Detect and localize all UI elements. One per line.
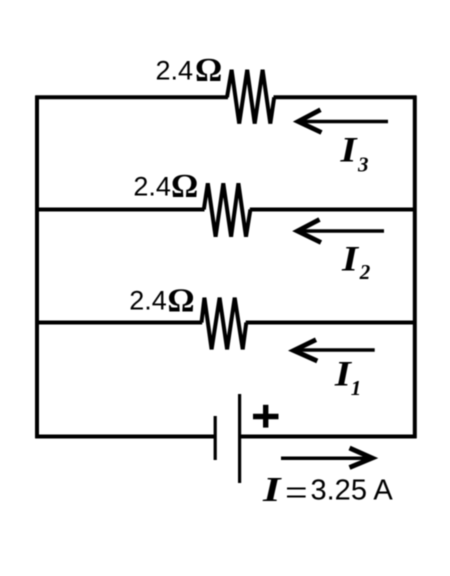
svg-text:Ω: Ω bbox=[167, 283, 194, 320]
wire middle branch right bbox=[250, 208, 417, 212]
svg-text:1: 1 bbox=[351, 376, 362, 400]
arrow I1 shaft bbox=[295, 348, 375, 352]
svg-text:2.4: 2.4 bbox=[156, 56, 194, 86]
arrow I total head bbox=[350, 448, 373, 468]
wire lower branch left bbox=[35, 321, 202, 325]
resistor R2 2.4ohm middle bbox=[204, 183, 251, 236]
label I1 bbox=[334, 354, 362, 401]
resistor R3 2.4ohm top bbox=[227, 70, 274, 124]
wire top branch right bbox=[274, 95, 417, 99]
svg-text:Ω: Ω bbox=[171, 168, 198, 205]
battery plus sign bbox=[253, 405, 279, 428]
battery positive plate bbox=[238, 394, 241, 483]
battery negative plate bbox=[214, 416, 217, 460]
arrow I3 shaft bbox=[300, 120, 388, 124]
svg-text:I: I bbox=[339, 129, 358, 169]
arrow I2 head bbox=[298, 220, 322, 243]
label I2 bbox=[341, 239, 371, 285]
wire right wall bbox=[413, 96, 417, 439]
arrow I2 shaft bbox=[299, 229, 384, 233]
arrow I total shaft bbox=[281, 457, 370, 461]
svg-text:Ω: Ω bbox=[195, 52, 222, 89]
svg-text:3: 3 bbox=[357, 153, 369, 177]
svg-text:3.25 A: 3.25 A bbox=[311, 475, 394, 507]
resistor R1 2.4ohm lower bbox=[202, 298, 247, 350]
wire bottom left to battery bbox=[35, 435, 215, 439]
wire left wall bbox=[35, 96, 39, 439]
svg-text:2: 2 bbox=[359, 260, 371, 284]
arrow I3 head bbox=[298, 110, 321, 133]
wire bottom right from battery bbox=[240, 435, 417, 439]
wire middle branch left bbox=[35, 208, 204, 212]
svg-text:I: I bbox=[341, 239, 360, 279]
label R3 value 2.4ohm bbox=[156, 52, 223, 89]
label I3 bbox=[339, 129, 368, 176]
svg-text:2.4: 2.4 bbox=[133, 172, 171, 202]
svg-text:I: I bbox=[262, 470, 283, 509]
label I = 3.25 A bbox=[262, 470, 394, 515]
label R2 value 2.4ohm bbox=[133, 168, 198, 205]
wire top branch left bbox=[35, 95, 228, 99]
arrow I1 head bbox=[294, 340, 318, 361]
svg-text:2.4: 2.4 bbox=[129, 286, 167, 316]
wire lower branch right bbox=[246, 321, 417, 325]
svg-text:I: I bbox=[334, 354, 353, 394]
svg-text:=: = bbox=[285, 470, 308, 515]
label R1 value 2.4ohm bbox=[129, 283, 194, 320]
